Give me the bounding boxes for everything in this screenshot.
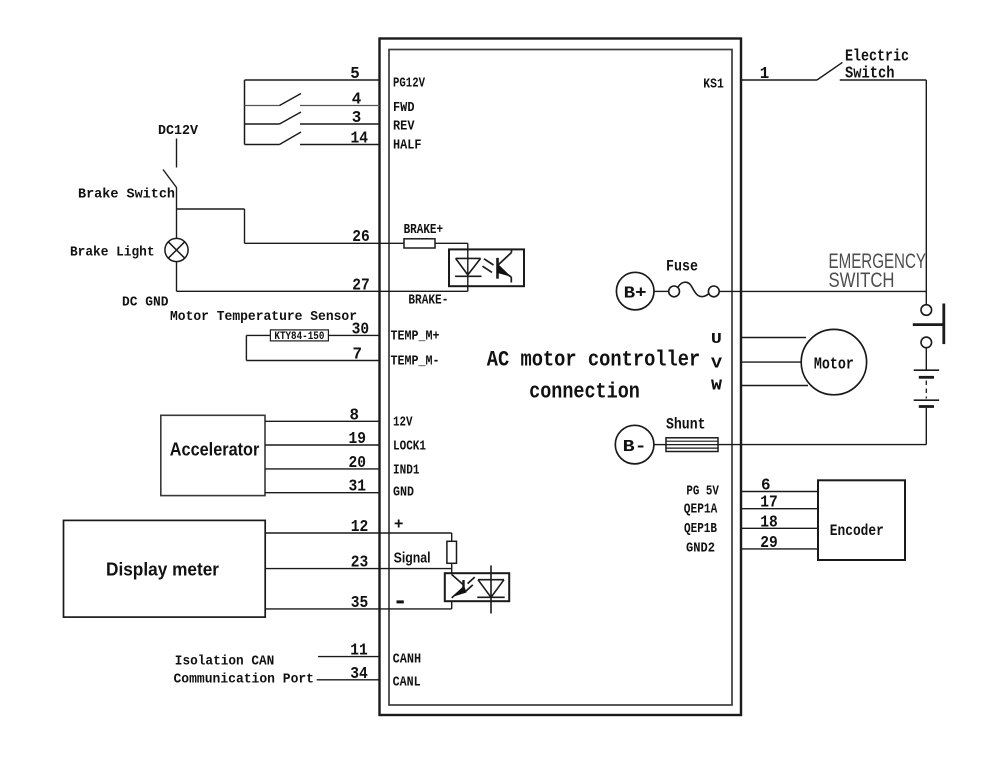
switch HALF blade xyxy=(280,132,302,145)
wire electric switch right xyxy=(840,79,927,81)
battery BT1 xyxy=(914,370,939,406)
wire pin 14 right xyxy=(300,144,380,146)
svg-text:Shunt: Shunt xyxy=(666,415,706,433)
wire pin 11 xyxy=(318,656,380,658)
svg-text:SWITCH: SWITCH xyxy=(829,268,895,292)
transistor Q1 phototransistor xyxy=(498,249,512,282)
svg-text:BRAKE+: BRAKE+ xyxy=(404,222,444,238)
opto2 light rays xyxy=(466,577,475,591)
wire pin 30 xyxy=(246,334,379,336)
svg-text:connection: connection xyxy=(529,379,640,405)
wire brake junction horizontal xyxy=(177,208,245,210)
wire B+ to fuse xyxy=(654,290,668,292)
svg-text:FWD: FWD xyxy=(393,100,415,116)
pushbutton bridge bar xyxy=(913,323,944,326)
svg-text:30: 30 xyxy=(352,320,370,339)
diode LED D1 xyxy=(455,258,481,276)
controller inner box xyxy=(389,50,732,706)
transistor Q1 emitter arrow xyxy=(497,265,512,277)
svg-text:BRAKE-: BRAKE- xyxy=(408,292,448,308)
node B- terminal xyxy=(615,425,654,464)
svg-text:Electric: Electric xyxy=(845,47,909,66)
wire battery to shunt xyxy=(925,408,927,445)
svg-text:U: U xyxy=(711,331,722,348)
svg-text:HALF: HALF xyxy=(393,137,422,153)
wire phase U xyxy=(741,337,806,339)
wire pin 1 xyxy=(741,79,817,81)
svg-text:20: 20 xyxy=(348,454,366,473)
svg-text:26: 26 xyxy=(352,228,370,247)
wire pin 27 xyxy=(177,290,468,292)
wire pin 34 xyxy=(317,679,380,681)
svg-text:DC GND: DC GND xyxy=(122,295,169,311)
svg-text:PG 5V: PG 5V xyxy=(686,485,719,500)
svg-text:CANL: CANL xyxy=(393,675,421,691)
svg-text:11: 11 xyxy=(350,642,368,661)
svg-text:12V: 12V xyxy=(393,415,413,431)
svg-text:1: 1 xyxy=(760,65,770,84)
svg-text:CANH: CANH xyxy=(393,652,422,668)
brake switch blade xyxy=(163,170,177,188)
wire pin 5 xyxy=(245,79,380,81)
wire opto LED vertical xyxy=(467,243,469,291)
svg-text:Motor: Motor xyxy=(814,354,854,373)
diode LED D2 xyxy=(477,565,504,613)
svg-text:34: 34 xyxy=(350,665,368,684)
wire emergency column upper xyxy=(925,80,927,305)
wire resistor to opto2 xyxy=(451,563,453,574)
wire lamp to pin 27 xyxy=(176,261,178,291)
pushbutton contact bottom xyxy=(921,337,932,348)
svg-text:IND1: IND1 xyxy=(393,462,420,478)
svg-text:LOCK1: LOCK1 xyxy=(393,439,426,455)
wire pin 7 xyxy=(246,360,379,362)
pin label minus xyxy=(397,600,404,603)
component Display meter box xyxy=(64,520,266,617)
switch REV blade xyxy=(280,112,302,124)
wire phase V xyxy=(741,361,801,363)
svg-text:DC12V: DC12V xyxy=(158,123,199,139)
svg-text:GND: GND xyxy=(393,485,414,501)
wire pin 14 left xyxy=(245,144,280,146)
switch Electric Switch blade xyxy=(817,62,842,80)
svg-text:5: 5 xyxy=(350,65,360,84)
svg-text:19: 19 xyxy=(348,430,366,449)
svg-text:TEMP_M-: TEMP_M- xyxy=(391,353,440,369)
component Encoder box xyxy=(818,480,905,560)
svg-text:AC motor controller: AC motor controller xyxy=(487,347,701,373)
svg-text:+: + xyxy=(394,515,403,532)
svg-text:B+: B+ xyxy=(624,284,647,303)
svg-text:18: 18 xyxy=(760,513,778,532)
svg-text:12: 12 xyxy=(351,518,369,537)
svg-text:Switch: Switch xyxy=(845,65,895,84)
svg-text:23: 23 xyxy=(351,554,369,573)
svg-text:Display meter: Display meter xyxy=(106,558,219,579)
pushbutton contact top xyxy=(921,305,932,316)
node B+ terminal xyxy=(616,272,654,310)
wire fuse to emergency column xyxy=(720,290,927,292)
svg-text:17: 17 xyxy=(760,494,778,513)
pushbutton actuator bar xyxy=(942,304,945,345)
svg-text:KS1: KS1 xyxy=(703,76,724,92)
wire pin 29 xyxy=(741,548,818,550)
wire pin 18 xyxy=(741,527,818,529)
svg-text:GND2: GND2 xyxy=(686,541,715,556)
svg-text:B-: B- xyxy=(623,437,647,456)
resistor R2 signal xyxy=(447,541,457,563)
svg-text:3: 3 xyxy=(352,109,362,128)
wire DC12V down xyxy=(176,139,178,168)
svg-text:W: W xyxy=(711,377,722,394)
sensor KTY84-150 box xyxy=(270,330,328,341)
svg-text:QEP1B: QEP1B xyxy=(684,522,717,537)
transistor Q3 emitter arrow xyxy=(453,586,467,597)
svg-text:Brake Switch: Brake Switch xyxy=(78,187,175,203)
node switch bus xyxy=(244,80,246,145)
lamp Brake Light xyxy=(165,238,188,261)
transistor Q3 phototransistor xyxy=(452,575,464,598)
wire pin 31 xyxy=(265,492,380,494)
svg-text:Encoder: Encoder xyxy=(830,522,884,540)
wire pin 19 xyxy=(265,444,380,446)
wire pin 23 xyxy=(265,568,452,570)
wire pin 3 left xyxy=(245,123,280,125)
wire pin 35 xyxy=(265,608,452,610)
fuse F1 xyxy=(669,282,720,297)
wire pushbutton to battery xyxy=(925,348,927,370)
svg-text:7: 7 xyxy=(352,346,362,365)
resistor R1 brake xyxy=(404,239,435,248)
svg-text:Signal: Signal xyxy=(394,550,431,566)
wire pin 8 xyxy=(265,420,380,422)
svg-text:4: 4 xyxy=(352,91,362,110)
wire pin 6 xyxy=(741,491,818,493)
svg-text:31: 31 xyxy=(348,478,366,497)
wire shunt to emergency column xyxy=(718,444,926,446)
wire brake switch to lamp xyxy=(176,188,178,240)
wire pin 3 right xyxy=(300,123,380,125)
svg-text:PG12V: PG12V xyxy=(393,76,425,92)
svg-text:29: 29 xyxy=(760,534,778,553)
svg-text:8: 8 xyxy=(350,406,360,425)
svg-text:Brake Light: Brake Light xyxy=(70,244,155,260)
wire pin 26 xyxy=(245,242,405,244)
svg-text:Communication Port: Communication Port xyxy=(174,671,315,687)
svg-text:Motor Temperature Sensor: Motor Temperature Sensor xyxy=(170,309,357,325)
wire pin 4 right xyxy=(300,105,380,107)
op-amp opto U3 box xyxy=(445,573,509,601)
svg-text:27: 27 xyxy=(352,276,370,295)
controller outer box U1 xyxy=(380,39,742,716)
svg-text:V: V xyxy=(711,356,722,373)
wire opto2 to pin 35 xyxy=(451,601,453,609)
switch FWD blade xyxy=(280,94,302,106)
wire phase W xyxy=(741,385,808,387)
svg-text:QEP1A: QEP1A xyxy=(684,503,718,518)
wire pin 20 xyxy=(265,468,380,470)
component Accelerator box xyxy=(161,415,265,495)
op-amp opto U2 box xyxy=(449,249,524,286)
wire brake junction vertical xyxy=(244,209,246,243)
wire B- to shunt xyxy=(654,444,666,446)
wire temp sensor vertical xyxy=(245,335,247,360)
svg-text:Isolation CAN: Isolation CAN xyxy=(175,653,274,669)
svg-text:TEMP_M+: TEMP_M+ xyxy=(391,328,440,344)
svg-text:6: 6 xyxy=(761,477,771,496)
resistor shunt R3 xyxy=(666,438,718,452)
svg-text:14: 14 xyxy=(351,130,369,149)
wire pin 4 left xyxy=(245,105,280,107)
svg-text:35: 35 xyxy=(351,594,369,613)
svg-text:Accelerator: Accelerator xyxy=(170,439,259,459)
motor M1 xyxy=(801,329,866,394)
svg-text:Fuse: Fuse xyxy=(666,257,698,275)
wire resistor to opto xyxy=(435,242,468,244)
svg-text:REV: REV xyxy=(393,118,415,134)
svg-text:KTY84-150: KTY84-150 xyxy=(274,331,324,343)
opto light rays xyxy=(483,259,494,273)
wire plus down to resistor xyxy=(451,533,453,541)
wire pin 12 xyxy=(265,532,452,534)
wire pin 17 xyxy=(741,508,818,510)
